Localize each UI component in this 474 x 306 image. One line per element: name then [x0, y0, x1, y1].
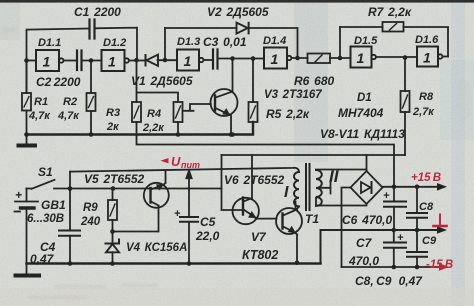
red +15V label, black arrow — [411, 172, 447, 191]
inverter D1.2 — [103, 37, 126, 49]
red -15V arrow/label — [426, 259, 453, 271]
inverter D1.1 — [38, 37, 61, 49]
ground (top-left) — [26, 135, 28, 145]
switch S1 — [38, 165, 53, 179]
resistor R5 — [266, 107, 310, 121]
capacitor C2 — [36, 75, 81, 89]
-15V rail — [342, 266, 441, 268]
Uпит red label — [161, 154, 201, 170]
V1 label — [131, 74, 193, 88]
bus A (top-section common) — [27, 122, 254, 135]
wire switch to V5/V6 base line — [70, 188, 222, 190]
wire C1 left — [27, 29, 90, 94]
bridge rectifier V8-V11 — [351, 171, 383, 204]
red ground — [434, 215, 447, 227]
wire — [64, 60, 78, 62]
line C (R8/bridge/V6) — [222, 154, 406, 156]
+15V rail — [383, 186, 439, 188]
C5 with arrow — [195, 215, 220, 243]
resistor R6 — [294, 74, 334, 88]
zener V4 — [126, 242, 187, 254]
node D (V1 cathode ... anode) — [163, 58, 168, 63]
V8-V11 label — [320, 127, 405, 141]
inverter D1.6 — [415, 34, 439, 46]
wire — [27, 60, 37, 62]
bottom bus — [27, 262, 321, 265]
resistor R2 — [57, 96, 80, 122]
D1 label — [338, 92, 384, 120]
capacitor C7 — [348, 236, 379, 268]
wire C1 right — [95, 28, 138, 60]
resistor R9 — [80, 202, 101, 228]
capacitor C1 label — [74, 5, 121, 19]
battery GB1 — [27, 198, 66, 225]
secondary bottom wire to bridge — [316, 198, 367, 206]
resistor R4 — [142, 108, 165, 134]
wire V4 node to V5 emitter — [113, 231, 159, 233]
line B (bus to +15V) — [137, 135, 395, 187]
capacitor C9 — [422, 235, 437, 247]
diode V2 + label — [207, 5, 269, 19]
resistor R7 — [368, 5, 412, 19]
capacitor C6 — [342, 213, 393, 227]
capacitor C4 — [30, 240, 56, 266]
top page border — [0, 0, 474, 3]
ground (bottom-left) — [26, 264, 28, 275]
inverter D1.3 — [177, 36, 200, 48]
transformer T1 secondary — [329, 167, 340, 186]
V6 emitter to V7 base — [256, 218, 277, 220]
center tap — [321, 183, 331, 194]
wire to D1.4 with nodes — [218, 58, 265, 60]
V6 base feed — [222, 155, 244, 210]
main +U rail — [70, 168, 299, 172]
secondary top wire to bridge — [316, 169, 367, 171]
V3 base hook to R4 — [183, 104, 211, 111]
wire + node B — [82, 60, 102, 62]
0V rail — [321, 230, 439, 264]
inverter D1.5 — [354, 35, 378, 47]
transistor V6 — [224, 173, 285, 187]
resistor R3 + feed — [106, 107, 120, 133]
inverter D1.4 — [263, 35, 286, 47]
transformer T1 primary — [284, 184, 289, 201]
resistor R8 — [412, 91, 435, 118]
capacitor C8 — [419, 201, 434, 213]
transistor V5 — [84, 172, 145, 186]
resistor R1 — [28, 96, 51, 122]
wire + node C — [129, 60, 146, 62]
transistor V7 — [242, 230, 278, 262]
bridge minus to -15 rail — [342, 188, 351, 268]
node A (D1.1 input) — [24, 58, 29, 63]
transformer core — [306, 164, 310, 210]
capacitor C3 — [203, 35, 247, 49]
paper streaks — [294, 0, 328, 162]
capacitor C1 — [90, 20, 95, 39]
transistor V3 — [264, 89, 322, 101]
wire up to R7 — [339, 27, 341, 58]
diode V1 — [145, 55, 147, 66]
wire up to V2 line — [164, 28, 166, 60]
C8,C9 caption — [355, 274, 423, 288]
